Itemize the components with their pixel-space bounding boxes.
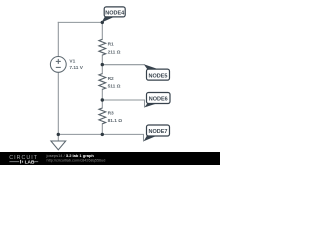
ground <box>51 141 66 150</box>
svg-text:http://circuitlab.com/c84268q5: http://circuitlab.com/c84268q556ud <box>47 158 106 162</box>
svg-text:R3: R3 <box>108 111 114 117</box>
wire below R3 <box>101 124 103 135</box>
resistor R3 <box>99 108 106 124</box>
wire top rail from V1 to ladder <box>58 21 102 23</box>
wire branch to NODE5 <box>102 64 144 66</box>
svg-text:R1: R1 <box>108 41 114 47</box>
svg-text:NODE4: NODE4 <box>105 10 125 16</box>
footer CircuitLab logo <box>9 155 38 165</box>
junction node below R3 <box>101 133 104 136</box>
wire bottom rail <box>58 134 143 141</box>
label R3 value <box>108 111 123 125</box>
resistor R2 <box>99 74 106 90</box>
svg-text:NODE7: NODE7 <box>149 129 168 135</box>
svg-text:LAB: LAB <box>25 159 35 165</box>
node NODE6 flag <box>145 93 171 108</box>
node NODE5 flag <box>144 64 170 80</box>
voltage source V1 <box>50 57 66 73</box>
svg-text:211 Ω: 211 Ω <box>108 50 121 56</box>
junction node at top corner <box>101 21 104 24</box>
junction node at V1 bottom <box>57 133 60 136</box>
footer bar <box>0 152 220 165</box>
node NODE4 flag <box>102 7 126 23</box>
svg-text:NODE5: NODE5 <box>149 73 168 79</box>
wire V1 bottom lead <box>57 72 59 134</box>
label R2 value <box>108 76 121 90</box>
svg-text:81.1 Ω: 81.1 Ω <box>108 118 123 124</box>
wire ladder top segment <box>101 22 103 39</box>
wire branch to NODE6 <box>102 100 144 107</box>
svg-text:R2: R2 <box>108 76 114 82</box>
label V1 value <box>69 59 83 71</box>
svg-text:7.11 V: 7.11 V <box>69 65 83 71</box>
resistor R1 <box>99 39 106 55</box>
wire between R2 and R3 <box>101 89 103 108</box>
junction node between R2 and R3 <box>101 98 104 101</box>
label R1 value <box>108 41 121 55</box>
svg-text:V1: V1 <box>69 59 75 65</box>
wire V1 top lead <box>57 22 59 56</box>
junction node between R1 and R2 <box>101 63 104 66</box>
svg-text:511 Ω: 511 Ω <box>108 84 121 90</box>
svg-text:joseps14 / 3.2 lab 1 graph: joseps14 / 3.2 lab 1 graph <box>46 153 95 158</box>
wire ground stem <box>57 134 59 140</box>
svg-text:NODE6: NODE6 <box>149 97 168 103</box>
wire between R1 and R2 <box>101 55 103 74</box>
node NODE7 flag <box>144 125 170 141</box>
